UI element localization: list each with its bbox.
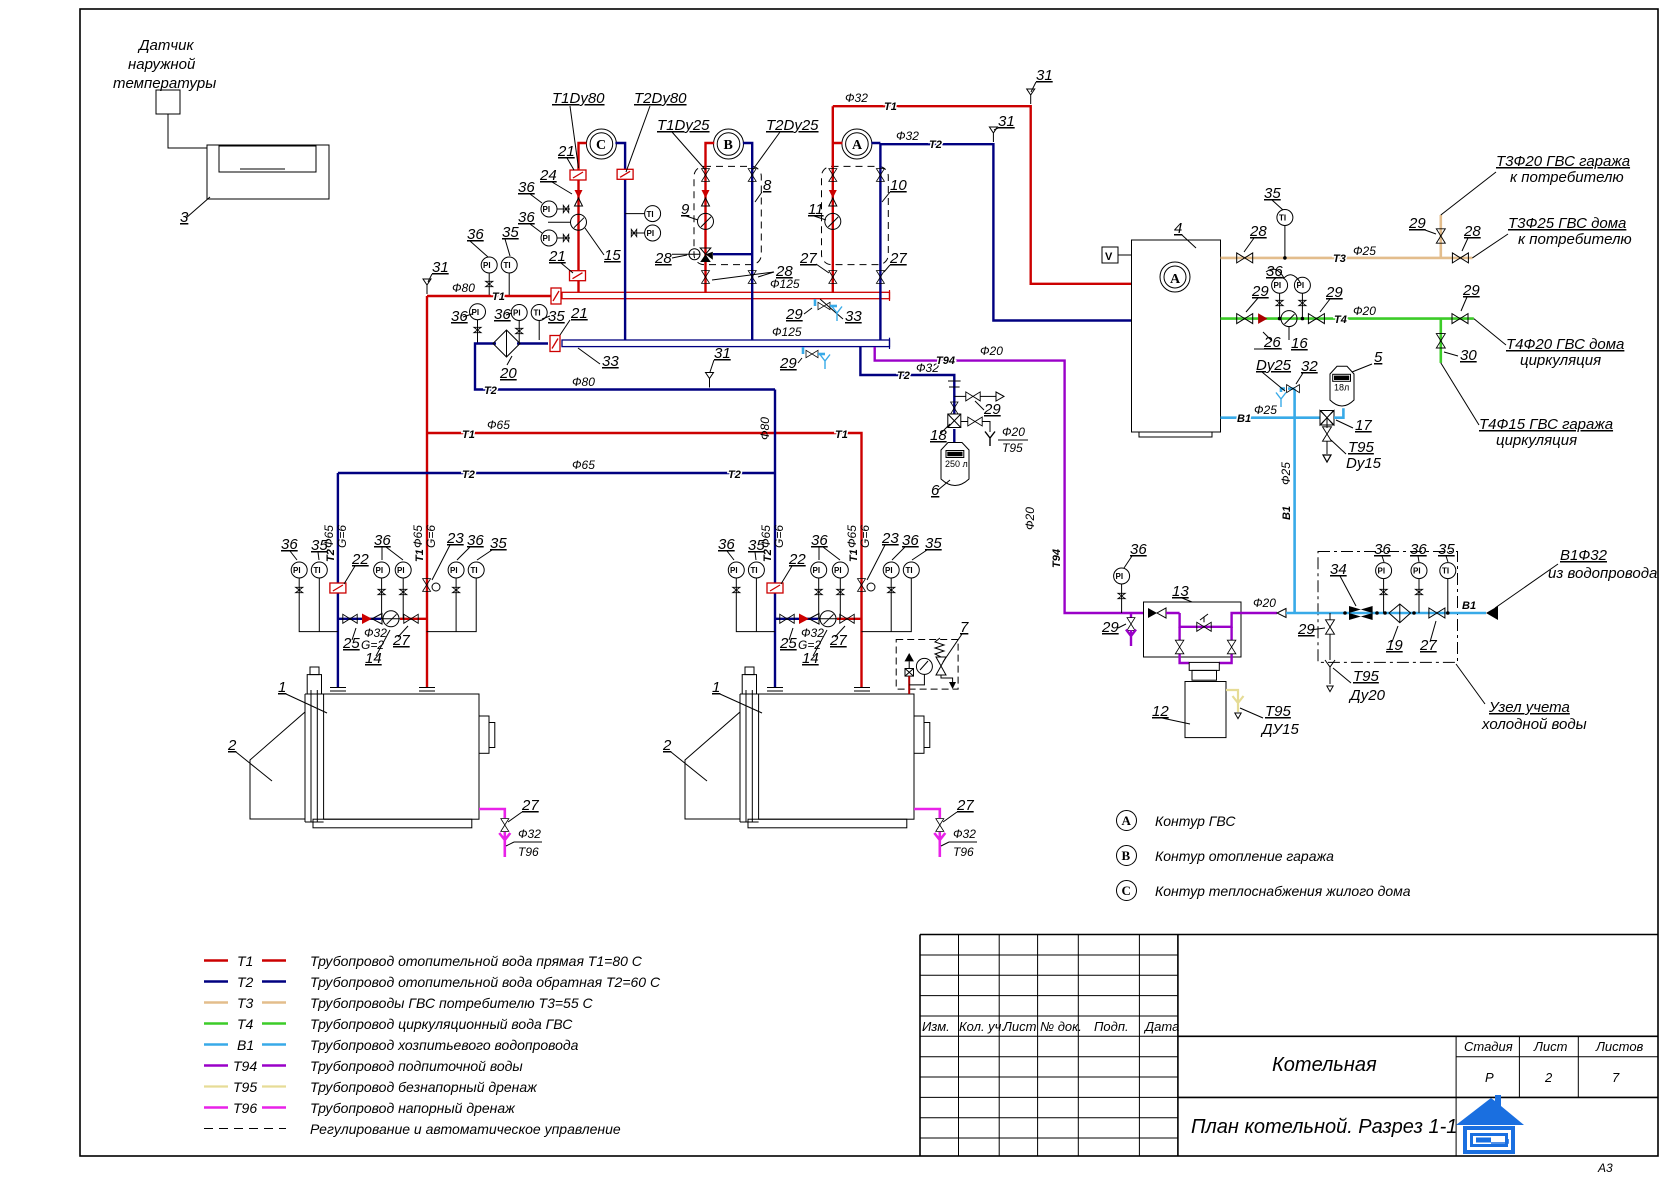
svg-text:Ф20: Ф20 <box>1023 507 1037 530</box>
instrument gauge <box>1272 277 1288 293</box>
valve <box>1197 622 1211 631</box>
svg-text:А3: А3 <box>1597 1161 1613 1175</box>
T2 f32 pipe <box>880 144 1131 320</box>
PI on T1 line <box>481 257 497 273</box>
svg-text:3: 3 <box>180 209 189 226</box>
PI PI TI <box>1376 563 1392 579</box>
svg-text:17: 17 <box>1355 417 1372 434</box>
svg-text:5: 5 <box>1374 349 1383 366</box>
instrument tap <box>1299 300 1306 305</box>
valves at top inside box <box>702 169 710 182</box>
svg-text:29: 29 <box>1325 284 1343 301</box>
svg-text:2: 2 <box>662 737 672 754</box>
svg-text:Т2: Т2 <box>897 370 910 382</box>
svg-text:36: 36 <box>902 532 919 549</box>
crossover pipe <box>713 253 752 255</box>
valve <box>858 579 866 592</box>
svg-text:26: 26 <box>1263 334 1281 351</box>
pump <box>820 611 836 627</box>
svg-text:PI: PI <box>376 566 384 575</box>
valve <box>1237 314 1253 324</box>
vent flag <box>706 373 714 388</box>
svg-text:28: 28 <box>1249 223 1267 240</box>
valves 28 below box <box>702 271 710 284</box>
svg-text:11: 11 <box>808 201 824 218</box>
svg-text:PI: PI <box>1413 567 1421 576</box>
svg-text:PI: PI <box>834 566 842 575</box>
riser T2 Dy25 <box>743 143 752 340</box>
svg-text:В1: В1 <box>1237 413 1251 425</box>
svg-text:Т94: Т94 <box>936 355 955 367</box>
svg-text:Т1: Т1 <box>492 291 505 303</box>
svg-text:Т94: Т94 <box>1051 549 1063 568</box>
svg-text:36: 36 <box>518 179 535 196</box>
svg-text:24: 24 <box>539 167 557 184</box>
expansion tank 5 <box>1330 366 1354 406</box>
control valve 21 on T2 <box>617 169 633 179</box>
valve <box>840 614 854 623</box>
svg-text:12: 12 <box>1152 703 1169 720</box>
drain arrow <box>1235 713 1241 719</box>
svg-text:1: 1 <box>712 679 720 696</box>
valve <box>876 271 884 284</box>
svg-text:Т3Ф20 ГВС гаража: Т3Ф20 ГВС гаража <box>1496 153 1630 170</box>
svg-text:PI: PI <box>813 566 821 575</box>
vent flag on T2 <box>989 127 997 142</box>
svg-text:G=6: G=6 <box>772 525 786 548</box>
svg-text:22: 22 <box>351 551 369 568</box>
svg-text:С: С <box>1122 883 1131 898</box>
svg-text:36: 36 <box>281 536 298 553</box>
svg-text:35: 35 <box>502 224 519 241</box>
svg-text:PI: PI <box>397 566 405 575</box>
valve <box>501 819 509 832</box>
svg-text:10: 10 <box>890 177 907 194</box>
svg-text:TI: TI <box>906 566 913 575</box>
instrument tap <box>296 587 303 592</box>
instrument tap <box>815 589 822 594</box>
instrument tap <box>453 587 460 592</box>
svg-text:Т1: Т1 <box>884 101 897 113</box>
control valve 21 at return header <box>550 336 560 352</box>
svg-text:Кол. уч.: Кол. уч. <box>959 1019 1005 1034</box>
valves at top inside box <box>829 169 837 182</box>
svg-text:35: 35 <box>548 308 565 325</box>
svg-text:Dy15: Dy15 <box>1346 455 1382 472</box>
pump <box>383 611 399 627</box>
valve <box>343 614 357 623</box>
valve <box>1452 253 1468 263</box>
svg-text:Т1: Т1 <box>848 549 860 562</box>
valves 27 below box <box>829 271 837 284</box>
svg-text:36: 36 <box>1266 263 1283 280</box>
pump <box>1281 311 1297 327</box>
pump 11 <box>825 213 841 229</box>
svg-text:20: 20 <box>499 365 517 382</box>
svg-text:Ф80: Ф80 <box>452 281 475 295</box>
controller 3 <box>207 145 329 199</box>
svg-text:Т2: Т2 <box>484 385 497 397</box>
svg-text:Дата: Дата <box>1143 1019 1179 1034</box>
svg-text:Стадия: Стадия <box>1464 1039 1513 1054</box>
svg-text:TI: TI <box>1442 567 1449 576</box>
valve <box>1127 618 1135 631</box>
svg-text:TI: TI <box>751 566 758 575</box>
svg-text:PI: PI <box>1378 567 1386 576</box>
svg-text:36: 36 <box>374 532 391 549</box>
svg-text:Ф125: Ф125 <box>772 325 802 339</box>
TI on T1 line <box>501 257 517 273</box>
svg-text:28: 28 <box>1463 223 1481 240</box>
drain valve 29 on supply header <box>814 299 817 306</box>
svg-text:Ф32: Ф32 <box>845 91 868 105</box>
svg-text:36: 36 <box>1130 541 1147 558</box>
svg-text:Трубопровод безнапорный дрен: Трубопровод безнапорный дренаж <box>310 1079 538 1095</box>
svg-text:G=6: G=6 <box>335 525 349 548</box>
PI on T2 riser <box>645 225 661 241</box>
svg-text:27: 27 <box>521 797 539 814</box>
svg-text:Т2: Т2 <box>929 139 942 151</box>
svg-text:Ф65: Ф65 <box>411 525 425 548</box>
svg-text:PI: PI <box>450 566 458 575</box>
valve <box>876 169 884 182</box>
dashed enclosure 10 <box>822 166 889 264</box>
pump circle A <box>842 129 872 159</box>
svg-text:Ф32: Ф32 <box>953 827 976 841</box>
svg-text:В1: В1 <box>1281 506 1293 520</box>
svg-text:31: 31 <box>998 113 1015 130</box>
svg-text:PI: PI <box>543 234 551 243</box>
svg-text:PI: PI <box>730 566 738 575</box>
svg-text:Ду20: Ду20 <box>1348 687 1386 704</box>
branch drain left <box>1329 613 1331 620</box>
instrument gauge <box>728 562 744 578</box>
svg-text:29: 29 <box>983 401 1001 418</box>
svg-text:27: 27 <box>1419 637 1437 654</box>
pump circle C <box>586 129 616 159</box>
instrument gauge <box>1277 210 1293 226</box>
boiler body <box>324 694 479 819</box>
svg-text:Т3: Т3 <box>237 995 254 1011</box>
svg-text:36: 36 <box>718 536 735 553</box>
svg-text:Ф32: Ф32 <box>518 827 541 841</box>
svg-text:35: 35 <box>1438 541 1455 558</box>
right instruments <box>427 578 477 632</box>
PI gauge lower <box>541 230 557 246</box>
svg-text:29: 29 <box>1101 619 1119 636</box>
pump 15 <box>571 214 587 230</box>
svg-text:Ф25: Ф25 <box>1254 403 1277 417</box>
svg-text:TI: TI <box>314 566 321 575</box>
T1 f65 cross main <box>427 433 862 688</box>
vent flag T1 left <box>423 279 431 294</box>
svg-text:Датчик: Датчик <box>137 37 195 54</box>
burner cone <box>250 712 305 819</box>
valve32 + drain <box>1287 385 1300 393</box>
svg-text:Dy25: Dy25 <box>1256 357 1292 374</box>
check valve 24 <box>575 190 583 206</box>
svg-text:31: 31 <box>714 345 731 362</box>
svg-text:Ф65: Ф65 <box>845 525 859 548</box>
svg-text:А: А <box>852 138 863 153</box>
svg-text:Котельная: Котельная <box>1272 1054 1377 1076</box>
check valve on T1 <box>829 190 837 206</box>
svg-text:G=6: G=6 <box>424 525 438 548</box>
instrument gauge <box>448 562 464 578</box>
drain arrow <box>1323 455 1331 462</box>
svg-text:Трубопроводы ГВС потребителю: Трубопроводы ГВС потребителю Т3=55 С <box>310 995 594 1011</box>
instrument gauge <box>748 562 764 578</box>
svg-text:30: 30 <box>1460 347 1477 364</box>
flanges at risers <box>330 688 435 692</box>
svg-text:PI: PI <box>647 229 655 238</box>
svg-text:Ф20: Ф20 <box>980 344 1003 358</box>
svg-text:Лист: Лист <box>1533 1039 1568 1054</box>
svg-text:28: 28 <box>775 263 793 280</box>
makeup unit 13 <box>1144 602 1242 657</box>
svg-text:В1: В1 <box>1462 600 1476 612</box>
return header pipe <box>562 340 890 347</box>
svg-text:25: 25 <box>342 635 360 652</box>
svg-text:Трубопровод напорный дренаж: Трубопровод напорный дренаж <box>310 1100 516 1116</box>
instrument gauge <box>903 562 919 578</box>
middle PIs <box>382 578 404 619</box>
svg-text:Контур ГВС: Контур ГВС <box>1155 813 1236 829</box>
svg-text:27: 27 <box>956 797 974 814</box>
svg-text:Т96: Т96 <box>518 845 539 859</box>
svg-text:Т1: Т1 <box>462 429 475 441</box>
svg-text:6: 6 <box>931 482 940 499</box>
svg-text:Ф80: Ф80 <box>758 417 772 440</box>
svg-text:Т2: Т2 <box>462 469 475 481</box>
filter 19 <box>1389 604 1411 623</box>
svg-text:TI: TI <box>1279 214 1286 223</box>
svg-text:ДУ15: ДУ15 <box>1260 721 1299 738</box>
svg-text:Подп.: Подп. <box>1094 1019 1129 1034</box>
svg-text:Контур теплоснабжения жилого: Контур теплоснабжения жилого дома <box>1155 883 1411 899</box>
recirculation manifold <box>338 618 381 620</box>
svg-text:Т4Ф15 ГВС гаража: Т4Ф15 ГВС гаража <box>1479 416 1613 433</box>
svg-text:29: 29 <box>1408 215 1426 232</box>
svg-text:PI: PI <box>483 261 491 270</box>
svg-text:Т4: Т4 <box>237 1016 254 1032</box>
svg-text:В1: В1 <box>237 1037 254 1053</box>
title block outline <box>920 935 1658 1157</box>
control valve 21 lower <box>570 271 586 281</box>
svg-text:19: 19 <box>1386 637 1403 654</box>
svg-text:PI: PI <box>1297 281 1305 290</box>
three-way mixing valve 28 <box>700 248 711 254</box>
svg-text:TI: TI <box>647 210 654 219</box>
svg-text:Контур отопление гаража: Контур отопление гаража <box>1155 848 1334 864</box>
svg-text:TI: TI <box>534 309 541 318</box>
instrument tap <box>837 589 844 594</box>
T1 f32 pipe <box>833 106 1132 284</box>
svg-text:Т95: Т95 <box>1353 668 1380 685</box>
svg-text:27: 27 <box>829 632 847 649</box>
svg-text:Трубопровод подпиточной воды: Трубопровод подпиточной воды <box>310 1058 523 1074</box>
riser T1 <box>833 106 843 293</box>
supply header pipe <box>562 292 890 298</box>
svg-text:36: 36 <box>1410 541 1427 558</box>
svg-text:из водопровода: из водопровода <box>1548 565 1657 582</box>
svg-text:Трубопровод отопительной вод: Трубопровод отопительной вода прямая Т1=… <box>310 953 643 969</box>
svg-text:29: 29 <box>785 306 803 323</box>
svg-text:Трубопровод хозпитьевого вод: Трубопровод хозпитьевого водопровода <box>310 1037 579 1053</box>
sensor wire <box>168 114 207 148</box>
svg-text:Т4: Т4 <box>1334 314 1347 326</box>
svg-text:Узел учета: Узел учета <box>1488 699 1570 716</box>
svg-text:Т1: Т1 <box>237 953 253 969</box>
svg-text:13: 13 <box>1172 583 1189 600</box>
svg-text:PI: PI <box>885 566 893 575</box>
instrument gauge <box>468 562 484 578</box>
instrument gauge <box>832 562 848 578</box>
dashed enclosure 8 <box>694 166 761 264</box>
svg-text:35: 35 <box>925 535 942 552</box>
svg-text:Регулирование и автоматическ: Регулирование и автоматическое управлени… <box>310 1121 621 1137</box>
svg-text:18л: 18л <box>1334 383 1349 393</box>
svg-text:35: 35 <box>490 535 507 552</box>
instrument tap <box>1276 300 1283 305</box>
svg-text:PI: PI <box>293 566 301 575</box>
svg-text:36: 36 <box>467 532 484 549</box>
svg-text:Т1: Т1 <box>835 429 848 441</box>
left table horizontals <box>920 955 1178 1138</box>
svg-text:наружной: наружной <box>128 56 196 73</box>
device 22 on T2 riser <box>330 583 346 593</box>
valve <box>1308 314 1324 324</box>
big cells <box>1178 1036 1658 1097</box>
instrument gauge <box>291 562 307 578</box>
riser T2 Dy80 <box>615 143 625 340</box>
valve <box>966 392 980 401</box>
PI on return mid <box>511 305 527 321</box>
svg-text:Т1Dy80: Т1Dy80 <box>552 90 605 107</box>
svg-text:Т3Ф25 ГВС дома: Т3Ф25 ГВС дома <box>1508 215 1626 232</box>
instrument gauge <box>1411 563 1427 579</box>
svg-text:250 л: 250 л <box>945 459 968 469</box>
valve <box>780 614 794 623</box>
logo house <box>1456 1095 1524 1154</box>
svg-text:23: 23 <box>446 530 464 547</box>
svg-text:32: 32 <box>1301 358 1318 375</box>
svg-text:Ф65: Ф65 <box>487 418 510 432</box>
sensor square <box>156 90 180 114</box>
svg-text:С: С <box>596 138 606 153</box>
svg-text:Лист: Лист <box>1002 1019 1037 1034</box>
drain funnel <box>985 432 995 447</box>
valve <box>1175 640 1184 654</box>
valve <box>1452 314 1468 324</box>
svg-text:31: 31 <box>432 259 449 276</box>
branch valve 29 <box>954 395 966 397</box>
svg-text:Т4Ф20 ГВС дома: Т4Ф20 ГВС дома <box>1506 336 1624 353</box>
svg-text:Т2Dy25: Т2Dy25 <box>766 117 819 134</box>
drain valve 29 on return header <box>802 347 805 354</box>
svg-text:36: 36 <box>467 226 484 243</box>
svg-text:PI: PI <box>513 309 521 318</box>
svg-text:Т1Dy25: Т1Dy25 <box>657 117 710 134</box>
filter 20 <box>493 330 520 357</box>
check valve on T1 <box>702 190 710 206</box>
valve 27 <box>1429 608 1445 618</box>
svg-text:34: 34 <box>1330 561 1347 578</box>
instrument tap <box>888 587 895 592</box>
svg-text:16: 16 <box>1291 335 1308 352</box>
svg-text:29: 29 <box>779 355 797 372</box>
svg-text:В: В <box>724 138 733 153</box>
svg-text:Т2Dy80: Т2Dy80 <box>634 90 687 107</box>
control device 21 <box>767 583 783 593</box>
svg-text:2: 2 <box>227 737 237 754</box>
valve <box>1323 427 1332 441</box>
instrument tap <box>378 589 385 594</box>
svg-text:В1Ф32: В1Ф32 <box>1560 547 1608 564</box>
valve <box>936 819 944 832</box>
svg-text:14: 14 <box>365 650 382 667</box>
svg-text:27: 27 <box>392 632 410 649</box>
control valve 21 at header inlet <box>551 288 561 304</box>
svg-text:22: 22 <box>788 551 806 568</box>
svg-text:G=6: G=6 <box>858 525 872 548</box>
svg-text:Ф20: Ф20 <box>1253 596 1276 610</box>
svg-text:к потребителю: к потребителю <box>1518 231 1632 248</box>
expansion tank 6 <box>953 429 955 443</box>
riser T1 Dy80 <box>579 143 587 292</box>
instrument gauge <box>374 562 390 578</box>
svg-text:21: 21 <box>548 248 566 265</box>
svg-text:Т95: Т95 <box>1265 703 1292 720</box>
instrument tap <box>733 587 740 592</box>
PI on return upstream <box>470 304 486 320</box>
instrument tap <box>400 589 407 594</box>
svg-text:План котельной. Разрез 1-1: План котельной. Разрез 1-1 <box>1191 1116 1457 1138</box>
outlet labels <box>1441 172 1496 215</box>
svg-text:36: 36 <box>1374 541 1391 558</box>
svg-text:№ док.: № док. <box>1040 1019 1082 1034</box>
svg-text:Ф65: Ф65 <box>572 458 595 472</box>
water meter 34 <box>1349 606 1373 620</box>
svg-text:1: 1 <box>278 679 286 696</box>
T1 left riser down to boiler 1 <box>426 296 428 688</box>
svg-text:PI: PI <box>1274 281 1282 290</box>
svg-text:Т95: Т95 <box>1348 439 1375 456</box>
svg-text:PI: PI <box>543 205 551 214</box>
three-way valve 18 <box>951 402 959 414</box>
svg-text:V: V <box>1105 251 1113 263</box>
svg-text:TI: TI <box>471 566 478 575</box>
svg-text:Ф25: Ф25 <box>1353 244 1376 258</box>
svg-text:температуры: температуры <box>113 75 216 92</box>
svg-text:Листов: Листов <box>1595 1039 1644 1054</box>
svg-text:8: 8 <box>763 177 772 194</box>
svg-text:циркуляция: циркуляция <box>1496 432 1577 449</box>
svg-text:Ф20: Ф20 <box>1002 425 1025 439</box>
svg-text:А: А <box>1122 813 1132 828</box>
chimney stub <box>307 675 321 694</box>
svg-text:PI: PI <box>1116 572 1124 581</box>
svg-text:Т1: Т1 <box>414 549 426 562</box>
svg-text:35: 35 <box>311 537 328 554</box>
riser T1 Dy25 <box>706 143 715 293</box>
valve <box>1436 334 1445 348</box>
TI on return mid <box>531 305 547 321</box>
pump 9 <box>698 213 714 229</box>
valve <box>1326 620 1335 634</box>
svg-text:4: 4 <box>1174 220 1182 237</box>
svg-text:14: 14 <box>802 650 819 667</box>
